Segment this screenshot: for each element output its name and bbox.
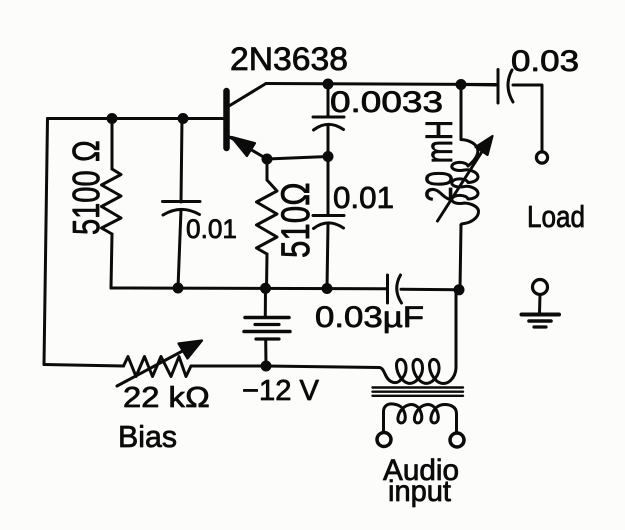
capacitor C3 0.01 (chain) — [313, 157, 344, 289]
capacitor C4 0.03uF — [388, 275, 460, 303]
svg-text:0.01: 0.01 — [186, 214, 237, 244]
capacitor C5 0.03 (top right) — [461, 70, 542, 152]
node bottom rail dot right — [454, 284, 465, 295]
node cap chain mid dot — [323, 151, 334, 162]
wire base rail — [48, 117, 225, 120]
transformer T1 secondary — [384, 404, 457, 433]
node bottom rail dot chain — [322, 283, 333, 294]
emitter lead — [230, 137, 268, 159]
transformer T1 primary — [379, 291, 456, 383]
wire bias rail right — [191, 366, 379, 368]
terminal secondary left — [377, 433, 391, 447]
node bottom rail dot battery — [260, 283, 271, 294]
svg-text:0.03µF: 0.03µF — [315, 301, 424, 334]
svg-text:5100 Ω: 5100 Ω — [66, 140, 108, 235]
ground symbol — [522, 280, 560, 328]
battery B1 -12V — [244, 288, 290, 366]
node base-rail left dot — [107, 113, 118, 124]
node emitter dot — [262, 154, 273, 165]
svg-text:22 kΩ: 22 kΩ — [123, 382, 210, 414]
node bottom rail dot c1 — [173, 283, 184, 294]
wire left vertical — [44, 119, 48, 365]
node top rail cap-chain dot — [323, 79, 334, 90]
svg-text:Load: Load — [527, 199, 585, 234]
terminal secondary right — [450, 433, 464, 447]
collector lead — [229, 84, 266, 107]
transistor Q1 2N3638 — [227, 84, 268, 160]
svg-text:Bias: Bias — [118, 419, 177, 454]
svg-text:2N3638: 2N3638 — [230, 41, 348, 77]
wire bottom rail — [111, 287, 387, 291]
emitter arrow — [232, 137, 256, 156]
node top rail inductor dot — [456, 79, 467, 90]
svg-text:20 mH: 20 mH — [419, 120, 461, 202]
svg-text:0.0033: 0.0033 — [330, 86, 443, 119]
inductor L1 20mH — [438, 85, 493, 291]
svg-text:−12 V: −12 V — [242, 375, 320, 407]
svg-text:510Ω: 510Ω — [274, 182, 318, 258]
node bias rail battery dot — [261, 361, 272, 372]
svg-text:0.03: 0.03 — [511, 45, 579, 78]
base bar — [223, 91, 230, 148]
resistor R3 22k bias (variable) — [117, 341, 202, 387]
wire emitter to cap chain — [267, 157, 328, 160]
svg-text:input: input — [388, 475, 452, 508]
node base-rail right dot — [178, 113, 189, 124]
resistor R1 5100 ohm — [102, 119, 122, 289]
resistor R2 510 ohm — [257, 159, 278, 288]
wire collector top rail — [266, 84, 496, 85]
terminal load — [536, 152, 547, 163]
capacitor C1 0.01 (left) — [163, 119, 201, 289]
wire bias rail left — [44, 365, 124, 367]
transformer T1 core — [373, 388, 464, 396]
capacitor C2 0.0033 — [313, 84, 344, 157]
svg-text:0.01: 0.01 — [333, 180, 394, 215]
